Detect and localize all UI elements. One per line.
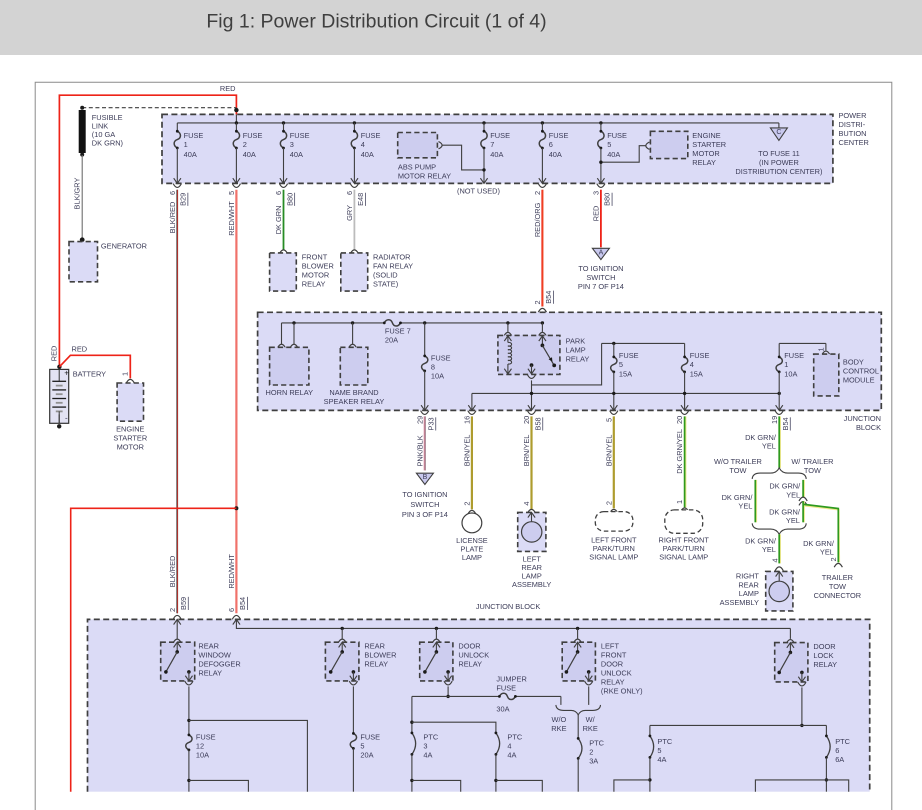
connector lfd unlock output <box>585 681 593 685</box>
labels RED/ORG <box>533 191 553 305</box>
labels BRN/YEL license <box>463 416 472 506</box>
pdc exit connector x600.9 <box>597 184 605 188</box>
wire park lamp relay switch riser <box>541 323 543 332</box>
relay horn (box) <box>270 347 309 385</box>
wire battery feed RED <box>59 95 236 367</box>
svg-text:6: 6 <box>274 191 283 195</box>
svg-text:DK GRN: DK GRN <box>274 206 283 235</box>
wire DK GRN/YEL right front <box>684 416 687 507</box>
svg-text:29: 29 <box>415 416 424 424</box>
svg-text:RED/WHT: RED/WHT <box>227 201 236 236</box>
wire ptc2 feed <box>577 715 579 739</box>
wire branch ptc4 bottom <box>496 780 542 791</box>
svg-text:REAR: REAR <box>364 641 385 650</box>
relay park lamp (box) <box>498 335 560 374</box>
svg-text:2: 2 <box>243 140 247 149</box>
wire w/ trailer branch upper <box>802 480 805 497</box>
fuse F5 40A <box>598 123 627 183</box>
relay engine starter motor PDC (box) <box>650 131 687 158</box>
license plate lamp <box>462 513 482 533</box>
svg-text:DEFOGGER: DEFOGGER <box>198 659 240 668</box>
svg-text:BODY: BODY <box>843 357 864 366</box>
jb entry BLK/RED <box>173 615 181 624</box>
svg-text:BLOCK: BLOCK <box>856 423 881 432</box>
svg-text:ENGINE: ENGINE <box>116 424 144 433</box>
svg-text:RADIATOR: RADIATOR <box>373 252 411 261</box>
node RED/WHT branch <box>234 506 238 510</box>
fuse F1 10A junction block <box>776 343 804 410</box>
fuse F2 40A <box>233 123 262 183</box>
right rear lamp assembly (box) <box>766 571 793 611</box>
svg-text:1: 1 <box>784 360 788 369</box>
svg-text:RED: RED <box>49 346 58 362</box>
label engine starter motor <box>113 424 147 451</box>
svg-text:UNLOCK: UNLOCK <box>458 650 489 659</box>
svg-text:8: 8 <box>431 362 435 371</box>
jb exit connector x471.9 <box>468 411 476 415</box>
svg-text:3: 3 <box>423 741 427 750</box>
labels RED fuse5 <box>592 191 612 221</box>
node lamp bus x613.8 <box>612 392 615 395</box>
svg-text:FUSE: FUSE <box>549 131 569 140</box>
svg-text:RED: RED <box>592 206 601 222</box>
svg-text:YEL: YEL <box>820 548 834 557</box>
connector left rear lamp <box>527 509 535 513</box>
svg-text:B80: B80 <box>285 193 294 206</box>
park lamp relay coil <box>504 336 511 374</box>
connector park lamp relay output <box>527 375 535 379</box>
svg-text:2: 2 <box>168 608 177 612</box>
jb exit arrow x779.2 <box>776 405 783 410</box>
label name brand speaker relay <box>324 388 385 406</box>
svg-text:ENGINE: ENGINE <box>692 131 720 140</box>
power distribution center label <box>839 111 869 147</box>
label battery <box>73 369 106 378</box>
node jb bus x577.6 <box>576 627 579 630</box>
wire branch ptc6 bottom <box>755 780 848 792</box>
svg-text:20: 20 <box>675 416 684 424</box>
wire branch fuse12 bottom <box>189 780 249 791</box>
svg-text:PTC: PTC <box>423 732 438 741</box>
labels PNK/BLK <box>415 416 435 467</box>
svg-text:4: 4 <box>522 502 531 506</box>
svg-text:15A: 15A <box>619 369 632 378</box>
node bus horn x424.7 <box>423 321 426 324</box>
svg-text:JUNCTION BLOCK: JUNCTION BLOCK <box>476 602 541 611</box>
labels trailer connector branch <box>803 539 838 562</box>
jb exit arrow x424.7 <box>421 405 428 410</box>
wire RED fuse5 out <box>600 190 602 248</box>
svg-text:7: 7 <box>490 140 494 149</box>
header bar <box>0 0 922 55</box>
svg-text:FUSE: FUSE <box>361 131 381 140</box>
svg-text:LOCK: LOCK <box>813 651 833 660</box>
svg-text:RELAY: RELAY <box>601 677 625 686</box>
node ptc3 branch <box>410 721 413 724</box>
svg-text:FUSE: FUSE <box>619 351 639 360</box>
svg-text:B54: B54 <box>781 417 790 430</box>
svg-text:TOW: TOW <box>829 582 846 591</box>
fuse F5 20A bottom <box>350 732 380 792</box>
svg-text:SWITCH: SWITCH <box>586 273 615 282</box>
svg-text:REAR: REAR <box>198 641 219 650</box>
pdc exit arrow x177.3 <box>174 178 181 183</box>
svg-text:SIGNAL LAMP: SIGNAL LAMP <box>659 553 708 562</box>
wire park lamp relay coil riser <box>507 323 509 332</box>
pdc exit connector x542.4 <box>538 184 546 188</box>
pdc exit arrow x600.9 <box>597 178 604 183</box>
node red feed junction <box>234 108 238 123</box>
wire GRY <box>353 190 355 250</box>
connector park lamp relay coil <box>504 332 512 336</box>
label trailer tow connector <box>814 573 862 600</box>
ptc 2 3A <box>577 737 605 792</box>
svg-text:PIN 3 OF P14: PIN 3 OF P14 <box>402 510 448 519</box>
svg-text:W/ TRAILER: W/ TRAILER <box>791 457 833 466</box>
svg-text:DISTRI-: DISTRI- <box>839 120 866 129</box>
svg-text:MOTOR: MOTOR <box>692 149 719 158</box>
svg-text:20A: 20A <box>360 751 373 760</box>
wire branch right defogger <box>189 720 308 791</box>
svg-text:DK GRN/: DK GRN/ <box>745 536 777 545</box>
wire door lock riser <box>789 628 791 639</box>
svg-text:2: 2 <box>533 300 542 304</box>
svg-text:BLOWER: BLOWER <box>364 650 396 659</box>
wire speaker relay riser <box>352 323 354 344</box>
brace merge bottom <box>752 523 806 534</box>
label left front park/turn <box>589 536 638 562</box>
svg-text:10A: 10A <box>196 751 209 760</box>
node bus horn x542.4 <box>541 321 544 324</box>
svg-text:MOTOR: MOTOR <box>302 270 329 279</box>
park lamp relay switch <box>539 336 556 367</box>
node bus horn x352.6 <box>351 321 354 324</box>
relay door unlock (box) <box>420 642 453 681</box>
svg-text:2: 2 <box>533 191 542 195</box>
svg-text:SIGNAL LAMP: SIGNAL LAMP <box>589 553 638 562</box>
svg-text:JUNCTION: JUNCTION <box>844 414 881 423</box>
svg-text:1: 1 <box>120 372 129 376</box>
fuse F3 40A <box>280 123 309 183</box>
svg-text:15A: 15A <box>690 369 703 378</box>
svg-text:LAMP: LAMP <box>566 345 586 354</box>
labels RED/WHT upper <box>227 191 236 236</box>
wire branch ptc5 bottom <box>614 780 650 792</box>
svg-text:5: 5 <box>360 741 364 750</box>
svg-text:(NOT USED): (NOT USED) <box>457 186 500 195</box>
svg-text:RIGHT: RIGHT <box>736 572 759 581</box>
node defogger branch <box>187 719 190 722</box>
rear blower relay switch <box>329 642 357 681</box>
svg-text:PTC: PTC <box>657 737 672 746</box>
wire ptc5 feed <box>649 725 651 736</box>
svg-text:CENTER: CENTER <box>839 138 869 147</box>
label license plate lamp <box>456 536 488 562</box>
wire park lamp output <box>531 380 533 410</box>
label door unlock relay <box>458 641 489 668</box>
svg-text:FUSE 7: FUSE 7 <box>385 327 411 336</box>
wire RED battery to starter <box>59 355 130 378</box>
svg-text:40A: 40A <box>361 150 374 159</box>
svg-text:19: 19 <box>770 416 779 424</box>
svg-text:CONTROL: CONTROL <box>843 366 879 375</box>
connector defogger relay output <box>185 681 193 685</box>
svg-text:PTC: PTC <box>507 732 522 741</box>
door unlock relay switch <box>423 642 452 681</box>
node fuse12 bottom branch <box>187 779 190 782</box>
wire BRN/YEL left rear <box>530 416 532 509</box>
power distribution center box <box>162 114 833 183</box>
label horn relay <box>266 388 314 397</box>
connector engine starter motor <box>126 379 134 383</box>
node door unlock branch <box>446 695 449 698</box>
svg-text:C: C <box>776 129 781 136</box>
pdc exit connector x236.4 <box>232 184 240 188</box>
svg-text:WINDOW: WINDOW <box>198 650 230 659</box>
junction block bottom (box) <box>88 619 870 791</box>
wire rear blower riser <box>341 628 343 639</box>
connector door lock relay <box>786 640 794 644</box>
triangle C to fuse 11 <box>770 128 787 140</box>
wire fuse bus link <box>532 343 602 385</box>
svg-text:LAMP: LAMP <box>462 553 482 562</box>
engine starter motor (box) <box>117 383 143 421</box>
label w/o trailer tow <box>714 457 762 475</box>
bus jb bottom <box>236 619 790 628</box>
right front park/turn signal lamp (blob) <box>665 510 703 533</box>
relay rear window defogger (box) <box>161 642 195 681</box>
pdc exit connector x354.4 <box>350 184 358 188</box>
connector trailer tow <box>834 563 842 567</box>
wire branch ptc3 bottom <box>412 780 461 791</box>
brace split top <box>752 468 806 479</box>
node battery negative <box>57 424 61 428</box>
node bus x542.4 <box>541 121 544 124</box>
label junction block middle <box>844 414 881 432</box>
svg-text:RED/ORG: RED/ORG <box>533 202 542 237</box>
labels DK GRN/YEL main <box>745 416 790 451</box>
connector BCM <box>822 351 830 355</box>
wire door lock output <box>801 687 803 725</box>
connector front blower relay <box>279 250 287 254</box>
node bus x354.4 <box>353 121 356 124</box>
svg-text:16: 16 <box>463 416 472 424</box>
svg-text:FUSE: FUSE <box>290 131 310 140</box>
svg-text:RED/WHT: RED/WHT <box>227 554 236 589</box>
svg-text:6: 6 <box>227 608 236 612</box>
pin 1 BCM <box>816 347 825 351</box>
ptc 6 6A <box>825 735 851 792</box>
connector license plate lamp <box>468 510 476 514</box>
wire w/o trailer branch <box>754 480 757 522</box>
jb exit arrow x531.5 <box>528 405 535 410</box>
svg-text:SPEAKER RELAY: SPEAKER RELAY <box>324 397 385 406</box>
label w/ trailer tow <box>791 457 833 475</box>
label to fuse 11 <box>735 149 822 176</box>
svg-text:TOW: TOW <box>729 466 746 475</box>
labels GRY <box>345 191 365 221</box>
ptc 5 4A <box>649 735 673 792</box>
svg-text:10A: 10A <box>431 372 444 381</box>
svg-text:JUMPER: JUMPER <box>496 674 526 683</box>
svg-text:4: 4 <box>770 558 779 562</box>
connector door unlock output <box>444 681 452 685</box>
svg-text:RELAY: RELAY <box>198 668 222 677</box>
connector door lock output <box>798 682 806 686</box>
svg-text:(RKE ONLY): (RKE ONLY) <box>601 686 643 695</box>
svg-text:FUSE: FUSE <box>784 351 804 360</box>
svg-text:B54: B54 <box>238 597 247 610</box>
jb exit connector x779.2 <box>775 411 783 415</box>
wire door unlock output <box>447 686 449 696</box>
svg-text:10A: 10A <box>784 369 797 378</box>
svg-text:PARK: PARK <box>566 336 586 345</box>
svg-text:5: 5 <box>619 360 623 369</box>
svg-text:YEL: YEL <box>786 516 800 525</box>
fuse F8 10A <box>422 353 451 410</box>
label w/ rke <box>583 715 598 733</box>
label RED top <box>220 84 236 93</box>
jb exit arrow x471.9 <box>468 405 475 410</box>
right rear lamp bulb <box>769 581 789 601</box>
label front blower motor relay <box>302 252 334 288</box>
svg-text:LAMP: LAMP <box>739 589 759 598</box>
svg-text:3: 3 <box>290 140 294 149</box>
svg-text:ASSEMBLY: ASSEMBLY <box>512 580 551 589</box>
wire F5 to ESM relay <box>601 146 646 163</box>
svg-text:DK GRN/YEL: DK GRN/YEL <box>675 429 684 474</box>
relay door lock (box) <box>775 643 808 682</box>
svg-text:4: 4 <box>690 360 694 369</box>
svg-text:4: 4 <box>361 140 365 149</box>
svg-text:RED: RED <box>220 84 236 93</box>
svg-text:6: 6 <box>168 191 177 195</box>
node bus x283.5 <box>282 121 285 124</box>
svg-text:DK GRN/: DK GRN/ <box>745 433 777 442</box>
jb entry RED/WHT <box>232 615 240 624</box>
svg-text:B58: B58 <box>533 417 542 430</box>
jb exit arrow x684.6 <box>681 405 688 410</box>
svg-text:FUSE: FUSE <box>360 732 380 741</box>
connector door unlock relay <box>432 639 440 643</box>
svg-text:E48: E48 <box>356 193 365 206</box>
rear window defogger relay switch <box>164 642 192 681</box>
wire ptc3 feed <box>411 696 413 733</box>
fuse F7 20A junction block <box>383 320 411 345</box>
jb exit connector x613.8 <box>610 411 618 415</box>
node jb bus x436.4 <box>435 627 438 630</box>
svg-text:B80: B80 <box>603 193 612 206</box>
svg-text:Fig 1: Power Distribution Circ: Fig 1: Power Distribution Circuit (1 of … <box>206 11 546 33</box>
svg-text:TO IGNITION: TO IGNITION <box>402 490 447 499</box>
label w/o rke <box>551 715 566 733</box>
node bus x484 <box>482 121 485 124</box>
bus ptc5/ptc6 <box>650 724 827 726</box>
svg-text:4A: 4A <box>423 750 432 759</box>
svg-text:DOOR: DOOR <box>601 659 623 668</box>
pin 1 engine starter motor <box>120 372 129 376</box>
node fuse5 top <box>612 342 615 345</box>
wire branch ptc4 feed <box>412 722 496 733</box>
svg-text:20A: 20A <box>385 336 398 345</box>
svg-text:MODULE: MODULE <box>843 375 875 384</box>
label (NOT USED) <box>457 186 500 195</box>
wire license exit <box>471 393 473 410</box>
svg-text:FUSE: FUSE <box>184 131 204 140</box>
svg-text:40A: 40A <box>290 150 303 159</box>
label to ignition switch pin7 <box>578 264 624 291</box>
wire lfd unlock output <box>588 686 590 705</box>
svg-text:ABS PUMP: ABS PUMP <box>398 162 436 171</box>
svg-text:BLK/RED: BLK/RED <box>168 202 177 234</box>
svg-text:YEL: YEL <box>738 502 752 511</box>
relay front blower motor (box) <box>270 253 297 291</box>
labels BLK/RED lower <box>168 556 188 612</box>
triangle B to ignition switch <box>416 473 433 484</box>
svg-text:BATTERY: BATTERY <box>73 369 106 378</box>
svg-text:FRONT: FRONT <box>302 252 328 261</box>
svg-text:MOTOR: MOTOR <box>117 442 144 451</box>
labels DK GRN <box>274 191 294 234</box>
label ABS pump motor relay <box>398 162 451 180</box>
connector right front lamp <box>681 508 689 512</box>
svg-text:TO IGNITION: TO IGNITION <box>578 264 623 273</box>
fuse F4 15A junction block <box>681 343 709 410</box>
pdc exit arrow x484 <box>480 178 487 183</box>
svg-text:4: 4 <box>507 741 511 750</box>
svg-text:DK GRN/: DK GRN/ <box>769 482 801 491</box>
connector lfd unlock relay <box>574 639 582 643</box>
svg-text:FAN RELAY: FAN RELAY <box>373 261 413 270</box>
bus lamp feed <box>472 392 779 394</box>
connector defogger relay <box>173 639 181 643</box>
bus fuse1 top <box>779 342 826 344</box>
label body control module <box>843 357 879 384</box>
pdc exit arrow x283.5 <box>280 178 287 183</box>
jb exit connector x684.6 <box>681 411 689 415</box>
connector rear blower relay <box>338 639 346 643</box>
svg-text:DK GRN): DK GRN) <box>92 139 123 148</box>
svg-text:ASSEMBLY: ASSEMBLY <box>720 598 759 607</box>
svg-text:40A: 40A <box>549 150 562 159</box>
connector crescent ESM <box>646 142 650 149</box>
svg-text:GRY: GRY <box>345 205 354 221</box>
bus horn relay <box>282 322 543 324</box>
svg-text:TOW: TOW <box>804 466 821 475</box>
label right rear lamp assembly <box>720 572 760 608</box>
ptc 3 4A <box>411 732 439 792</box>
bus fuse 5/4 top <box>602 342 685 344</box>
svg-text:BRN/YEL: BRN/YEL <box>522 435 531 467</box>
relay name brand speaker (box) <box>340 347 368 385</box>
svg-text:LEFT: LEFT <box>601 641 620 650</box>
svg-text:YEL: YEL <box>786 490 800 499</box>
svg-text:STATE): STATE) <box>373 279 398 288</box>
fuse F6 40A <box>539 123 568 183</box>
svg-text:P33: P33 <box>426 417 435 430</box>
label left front door unlock relay <box>601 641 643 695</box>
node lamp bus x779.2 <box>778 392 781 395</box>
label RED rotated battery <box>49 346 58 362</box>
node battery positive <box>57 365 61 369</box>
label rear window defogger relay <box>198 641 240 677</box>
svg-text:RELAY: RELAY <box>813 660 837 669</box>
connector junction block entry RED/ORG <box>538 308 546 317</box>
wire DK GRN/YEL main <box>778 416 781 468</box>
node jb bus x342.2 <box>341 627 344 630</box>
labels RED/WHT lower <box>227 554 247 612</box>
svg-text:RELAY: RELAY <box>364 659 388 668</box>
